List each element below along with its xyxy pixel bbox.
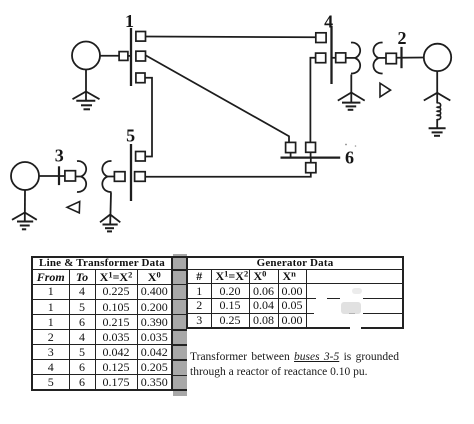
wire generator1 to breaker — [100, 55, 119, 57]
wire breaker to transformer T35 — [76, 176, 82, 178]
ground generator G2 — [429, 119, 446, 136]
breaker bus3 transformer35 — [65, 171, 76, 181]
breaker bus5 transformer35 — [114, 172, 125, 182]
transformer T24 secondary winding — [373, 43, 382, 74]
wire T35 to bus5 breaker — [108, 176, 115, 178]
wire T24 to breaker — [379, 57, 386, 59]
wire generator3 to bus3 and breaker — [39, 175, 65, 177]
ground transformer T24 — [338, 75, 365, 110]
svg-text:4: 4 — [324, 12, 333, 32]
wire line 4-6 — [310, 58, 315, 143]
generator G2 — [424, 44, 451, 71]
bus 4 — [330, 26, 332, 84]
grounding reactor of generator G2 — [437, 103, 440, 120]
scan speck — [345, 144, 347, 146]
gray scan strip — [173, 254, 187, 396]
svg-text:1: 1 — [125, 11, 134, 31]
wire bus6 right-square stub — [310, 152, 312, 157]
transformer T35 secondary winding — [102, 161, 111, 192]
breaker bus2 transformer24 — [386, 53, 396, 63]
row line extensions across strip — [173, 256, 187, 257]
bus 5 — [130, 144, 132, 201]
wire line 1-4 — [146, 36, 316, 39]
delta symbol T35 — [67, 202, 80, 213]
svg-text:5: 5 — [126, 126, 135, 146]
wire breaker to bus1 — [128, 55, 131, 57]
svg-text:6: 6 — [345, 148, 354, 168]
faint smudge — [341, 302, 361, 314]
breaker generator1 — [119, 52, 128, 61]
breaker bus6 line46 — [306, 142, 316, 152]
breaker bus1 line14 — [136, 32, 146, 42]
ground transformer T35 — [100, 193, 120, 232]
delta symbol T24 — [380, 83, 391, 97]
breaker bus1 line15 — [136, 73, 145, 83]
wire line 1-6 (diagonal) — [146, 55, 290, 143]
wire breaker through bus2 to generator2 — [396, 57, 424, 59]
bus 2 — [400, 47, 402, 68]
wire line 5-6 — [145, 173, 311, 177]
bus 3 — [58, 166, 60, 185]
wire bus6 below-square stub — [310, 158, 312, 163]
breaker bus5 line56 — [135, 172, 146, 182]
wire bus4 to breaker of T24 — [332, 57, 336, 59]
ground generator G3 — [12, 190, 37, 229]
breaker bus6 line56 — [306, 163, 316, 173]
svg-text:2: 2 — [398, 28, 407, 48]
bus 6 — [281, 156, 341, 158]
breaker bus5 line15 — [136, 152, 146, 162]
wire breaker to transformer T24 — [346, 57, 355, 59]
breaker bus4 line14 — [316, 33, 326, 43]
note text — [190, 350, 399, 380]
wire line 1-5 — [145, 78, 152, 157]
svg-text:3: 3 — [55, 146, 64, 166]
generator G2 neutral wye — [424, 72, 451, 104]
breaker bus4 transformer24 — [336, 53, 346, 63]
bus 1 — [130, 28, 132, 86]
ground generator G1 — [73, 70, 100, 110]
scan speck — [355, 145, 357, 147]
breaker bus1 line16 — [136, 51, 146, 61]
generator G3 — [11, 162, 39, 190]
transformer T24 primary winding — [351, 43, 360, 74]
breaker bus6 line16 — [286, 142, 296, 152]
line and transformer data table — [31, 256, 173, 391]
wire bus6 left-square stub — [290, 153, 292, 158]
generator G1 — [72, 42, 100, 70]
breaker bus4 line46 — [316, 53, 326, 63]
white-out marks over table lines — [316, 296, 327, 301]
transformer T35 primary winding — [77, 161, 86, 192]
generator data table — [186, 256, 404, 329]
